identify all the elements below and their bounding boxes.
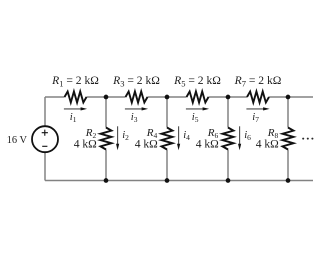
- node junction bottom x=167: [165, 178, 170, 183]
- svg-text:4 kΩ: 4 kΩ: [196, 138, 219, 151]
- wire: [87, 96, 107, 98]
- resistor R7 2 kOhm: [247, 92, 269, 103]
- node junction top x=167: [165, 95, 170, 100]
- current arrow i3: [125, 108, 143, 110]
- wire: [44, 152, 46, 180]
- node junction top x=228: [226, 95, 231, 100]
- node junction top x=106: [104, 95, 109, 100]
- wire: [227, 97, 229, 128]
- current arrow i1: [64, 108, 82, 110]
- current arrow i7: [246, 108, 264, 110]
- wire: [167, 96, 187, 98]
- resistor R3 2 kOhm: [126, 92, 148, 103]
- resistor R6 4 kOhm: [223, 128, 234, 150]
- svg-text:R1 = 2 kΩ: R1 = 2 kΩ: [51, 74, 99, 88]
- node junction bottom x=106: [104, 178, 109, 183]
- wire: [105, 97, 107, 128]
- svg-text:4 kΩ: 4 kΩ: [135, 138, 158, 151]
- wire: [105, 150, 107, 181]
- wire: [209, 96, 229, 98]
- node junction top x=288: [286, 95, 291, 100]
- svg-text:R3 = 2 kΩ: R3 = 2 kΩ: [112, 74, 160, 88]
- current arrow i4: [178, 126, 180, 145]
- resistor R8 4 kOhm: [283, 128, 294, 150]
- wire: [106, 96, 126, 98]
- resistor R1 2 kOhm: [65, 92, 87, 103]
- current arrow i2: [117, 126, 119, 145]
- resistor R4 4 kOhm: [162, 128, 173, 150]
- wire: [45, 96, 65, 98]
- wire: [227, 150, 229, 181]
- wire: [148, 96, 168, 98]
- svg-text:16 V: 16 V: [7, 135, 28, 146]
- wire: [166, 150, 168, 181]
- voltage source Vs 16 V: [32, 126, 58, 152]
- wire: [288, 96, 313, 98]
- svg-text:R5 = 2 kΩ: R5 = 2 kΩ: [173, 74, 221, 88]
- current arrow i6: [239, 126, 241, 145]
- wire: [287, 150, 289, 181]
- wire: [166, 97, 168, 128]
- svg-text:4 kΩ: 4 kΩ: [74, 138, 97, 151]
- node junction bottom x=228: [226, 178, 231, 183]
- svg-text:R7 = 2 kΩ: R7 = 2 kΩ: [234, 74, 282, 88]
- wire: [269, 96, 288, 98]
- resistor R2 4 kOhm: [101, 128, 112, 150]
- ellipsis continuation dots: [302, 138, 304, 140]
- wire: [228, 96, 247, 98]
- wire: [287, 97, 289, 128]
- wire: [45, 180, 313, 182]
- current arrow i5: [186, 108, 204, 110]
- svg-text:4 kΩ: 4 kΩ: [256, 138, 279, 151]
- wire: [44, 97, 46, 126]
- resistor R5 2 kOhm: [187, 92, 209, 103]
- node junction bottom x=288: [286, 178, 291, 183]
